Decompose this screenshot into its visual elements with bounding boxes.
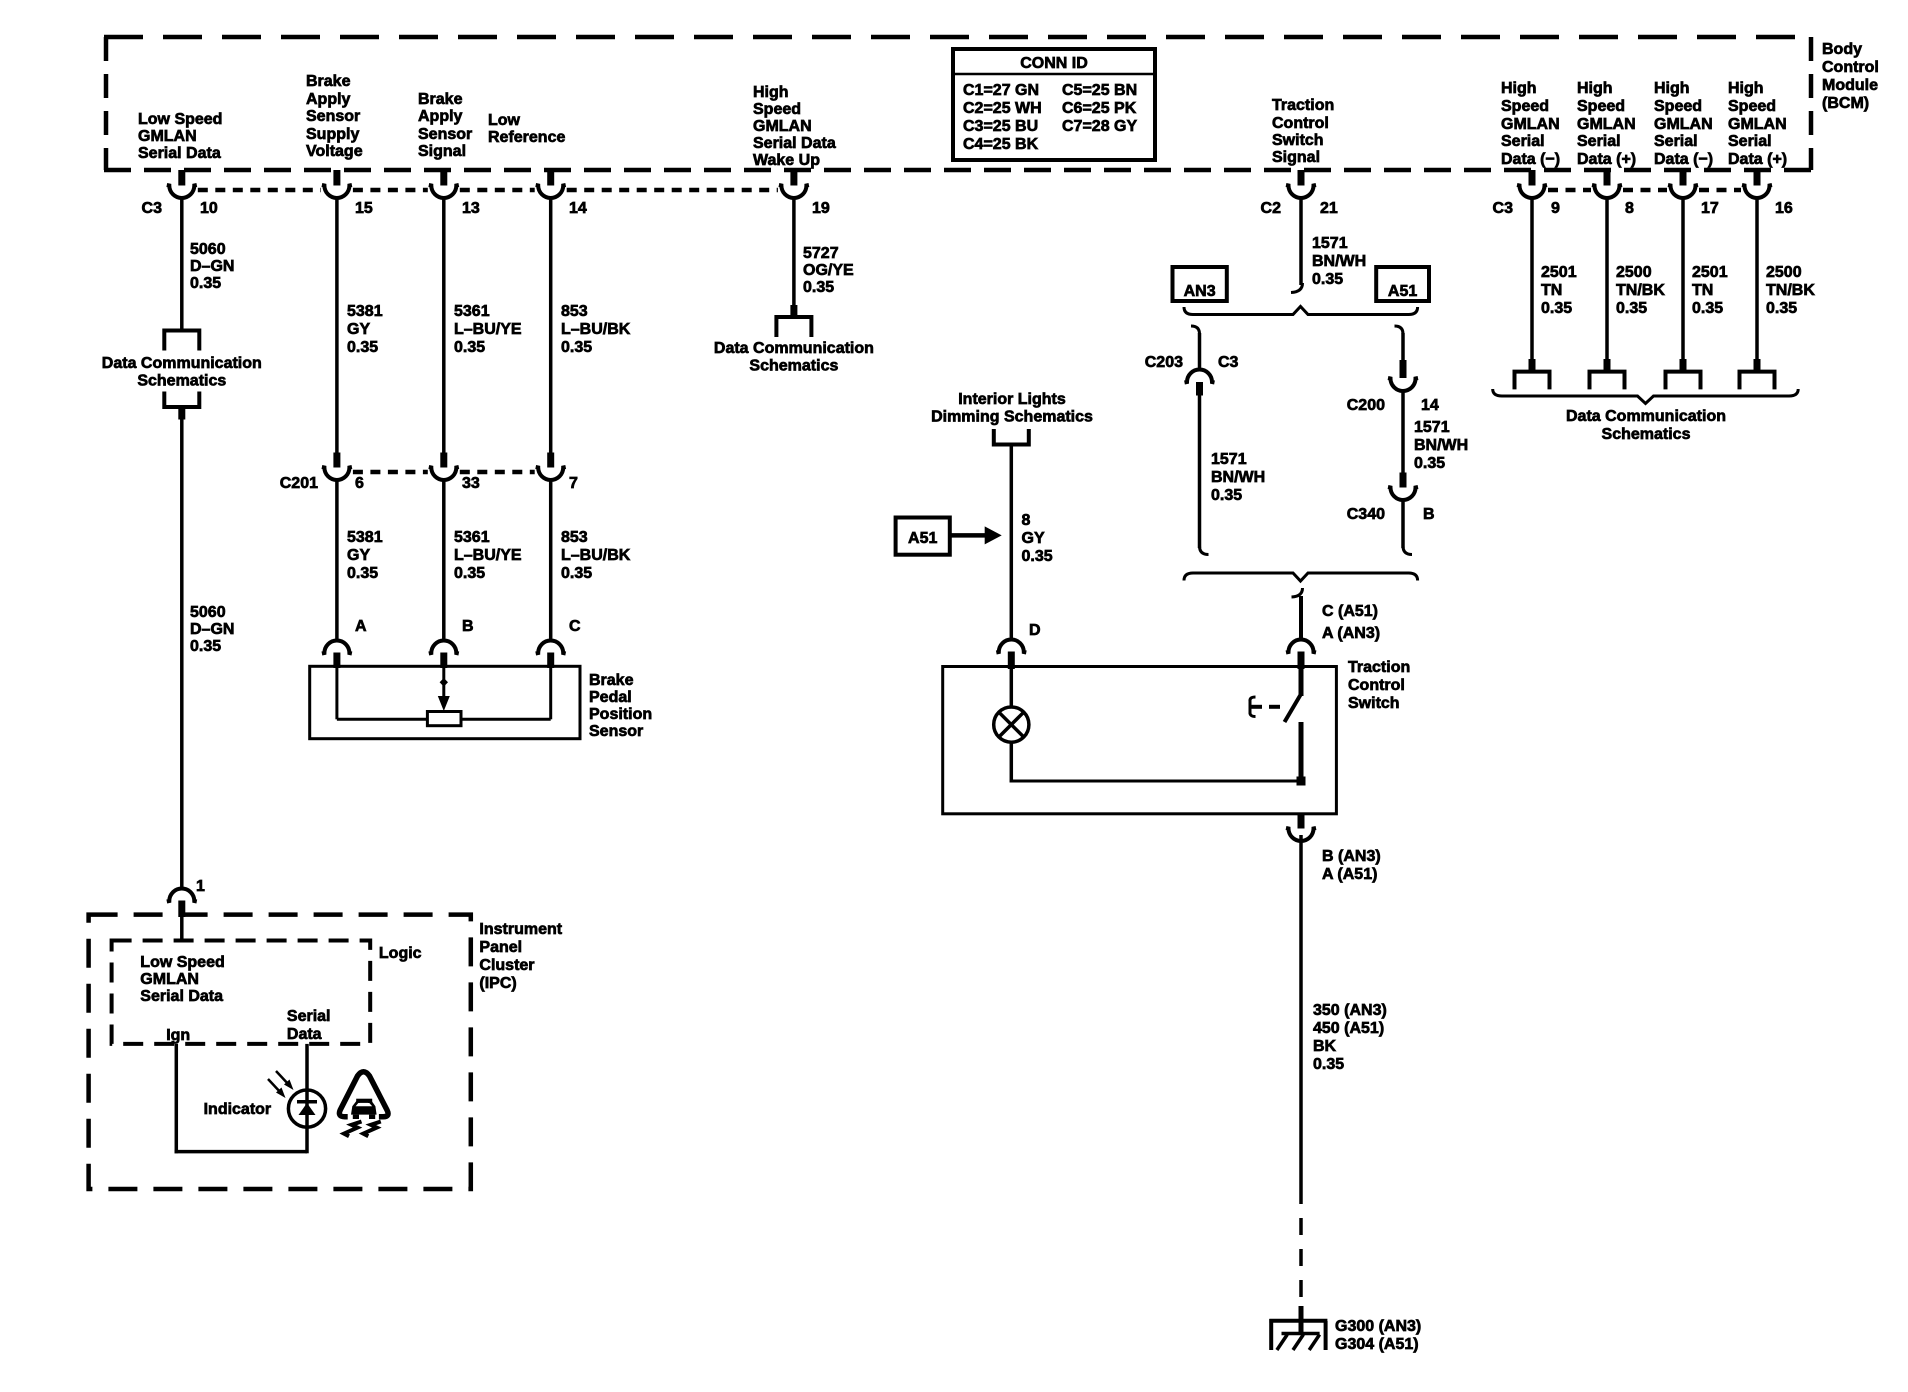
svg-text:0.35: 0.35 [561,339,592,356]
svg-text:Control: Control [1822,59,1879,76]
svg-text:TN/BK: TN/BK [1766,282,1815,299]
svg-text:L–BU/YE: L–BU/YE [454,321,522,338]
svg-text:Logic: Logic [379,945,422,962]
svg-text:B: B [1423,506,1435,523]
sensor pin C terminal [536,641,566,669]
svg-text:33: 33 [462,475,480,492]
svg-text:Signal: Signal [418,143,466,160]
wire 5361 upper label [454,303,522,356]
IPC wire into logic box [180,917,184,941]
svg-text:Speed: Speed [1577,98,1625,115]
svg-text:0.35: 0.35 [803,279,834,296]
wire 2500 TN/BK [1755,198,1759,360]
LED photon arrows [268,1071,294,1098]
svg-text:5361: 5361 [454,529,490,546]
svg-text:0.35: 0.35 [190,638,221,655]
sensor internal left leg [335,668,338,719]
label Data Communication Schematics [102,355,262,390]
IPC indicator circuit right leg upper [305,1044,309,1091]
potentiometer resistor element [427,712,461,726]
wire 1571 label right branch [1414,419,1468,472]
pin number 9 [1551,200,1560,217]
label Logic [379,945,422,962]
svg-text:Instrument: Instrument [479,921,562,938]
svg-text:A51: A51 [908,530,937,547]
svg-text:BN/WH: BN/WH [1211,469,1265,486]
svg-text:Schematics: Schematics [1602,426,1691,443]
svg-text:5361: 5361 [454,303,490,320]
pin number 21 [1320,200,1338,217]
label High Speed GMLAN Serial Data (-) (pin 17) [1654,80,1713,168]
sensor pin letter C [569,618,581,635]
svg-text:A (AN3): A (AN3) [1322,625,1380,642]
off-page ref Data Communication Schematics (bottom bracket) [164,392,199,408]
underbrace splice bottom [1184,573,1418,581]
wire 2501 TN tick [1529,359,1536,371]
svg-text:TN: TN [1692,282,1713,299]
pin number 10 [200,200,218,217]
label Low Reference (pin 14) [488,112,565,146]
C201 pin 33 terminal [429,453,459,480]
svg-text:853: 853 [561,303,588,320]
svg-text:L–BU/BK: L–BU/BK [561,321,631,338]
sensor pin letter A [355,618,367,635]
label Indicator [204,1101,272,1118]
sensor internal right leg [549,668,552,719]
right branch wire lower [1401,501,1405,549]
switch pin D terminal [996,640,1026,670]
svg-text:Traction: Traction [1272,97,1334,114]
Traction Control Switch box [943,667,1337,814]
label Instrument Panel Cluster (IPC) [479,921,562,992]
svg-text:C3: C3 [1493,200,1514,217]
svg-text:GMLAN: GMLAN [753,118,812,135]
svg-text:Data (+): Data (+) [1577,151,1636,168]
wire 5060 tick below bracket [178,407,185,420]
svg-text:A: A [355,618,367,635]
switch internal horizontal wire [1010,780,1301,783]
svg-text:13: 13 [462,200,480,217]
svg-text:Sensor: Sensor [418,126,472,143]
svg-text:Low: Low [488,112,521,129]
svg-text:0.35: 0.35 [454,339,485,356]
C201 pin number 7 [569,475,578,492]
svg-text:0.35: 0.35 [347,339,378,356]
wire 5060 label upper [190,241,234,292]
svg-text:GY: GY [347,547,370,564]
BCM pin 13 terminal [429,170,459,198]
svg-text:0.35: 0.35 [1541,300,1572,317]
wire 5361 upper segment [442,198,446,453]
svg-text:Data Communication: Data Communication [714,340,874,357]
BCM pin 8 terminal [1592,170,1622,198]
svg-text:Signal: Signal [1272,149,1320,166]
label C200 [1347,397,1385,414]
svg-text:Sensor: Sensor [306,108,360,125]
svg-text:Serial: Serial [1654,133,1698,150]
svg-text:Module: Module [1822,77,1878,94]
svg-text:0.35: 0.35 [1312,271,1343,288]
pin number 8 [1625,200,1634,217]
pin number 19 [812,200,830,217]
svg-text:Ign: Ign [166,1027,190,1044]
harness label box AN3 [1173,267,1227,301]
connector C203 tick [1196,382,1203,396]
svg-text:C5=25 BN: C5=25 BN [1062,82,1137,99]
BCM pin 16 terminal [1742,170,1772,198]
svg-text:0.35: 0.35 [1211,487,1242,504]
off-page ref bracket (interior lights) [994,429,1029,445]
svg-text:Brake: Brake [418,91,463,108]
svg-text:C201: C201 [280,475,318,492]
indicator LED symbol [288,1090,325,1127]
svg-text:A51: A51 [1388,283,1417,300]
svg-text:Data (−): Data (−) [1654,151,1713,168]
wire 5381 lower segment [335,481,339,640]
svg-text:Supply: Supply [306,126,359,143]
svg-text:19: 19 [812,200,830,217]
svg-text:C (A51): C (A51) [1322,603,1378,620]
switch pin B/A terminal [1286,814,1316,841]
label C203 [1145,354,1183,371]
switch feed wire [1299,596,1303,639]
Body Control Module (BCM) dashed box [104,37,1813,170]
svg-text:0.35: 0.35 [1766,300,1797,317]
svg-text:0.35: 0.35 [190,275,221,292]
svg-text:C203: C203 [1145,354,1183,371]
wire 5381 upper segment [335,198,339,453]
wire 5060 from pin 10 [180,198,184,331]
svg-text:Brake: Brake [589,672,634,689]
wire 5381 lower label [347,529,383,582]
svg-text:Cluster: Cluster [479,957,534,974]
off-page ref Data Communication Schematics (pin 19 bracket) [776,317,811,337]
BCM pin 9 terminal [1517,170,1547,198]
svg-text:Serial Data: Serial Data [140,988,223,1005]
svg-text:Speed: Speed [1728,98,1776,115]
svg-text:8: 8 [1625,200,1634,217]
wire 2501 TN tick [1680,359,1687,371]
right branch wire middle [1401,392,1405,474]
wire 2500 TN/BK label [1616,264,1665,317]
svg-text:GMLAN: GMLAN [1728,116,1787,133]
harness ref box A51 with arrow [896,518,1002,555]
label pin B at C340 [1423,506,1435,523]
svg-text:Brake: Brake [306,73,351,90]
label High Speed GMLAN Serial Data (+) (pin 16) [1728,80,1787,168]
svg-text:C3: C3 [142,200,163,217]
svg-text:AN3: AN3 [1184,283,1216,300]
sensor pin A terminal [322,641,352,669]
svg-text:Sensor: Sensor [589,723,643,740]
IPC indicator circuit left leg [175,1044,179,1153]
svg-text:1571: 1571 [1211,451,1247,468]
svg-text:High: High [753,84,789,101]
svg-text:14: 14 [569,200,587,217]
label Brake Apply Sensor Signal (pin 13) [418,91,472,160]
svg-text:1: 1 [196,878,205,895]
pin number 14 [569,200,587,217]
svg-text:OG/YE: OG/YE [803,262,854,279]
label Brake Apply Sensor Supply Voltage (pin 15) [306,73,363,160]
label Low Speed GMLAN Serial Data (pin 10) [138,111,222,162]
wire 1571 label (pin 21) [1312,235,1366,288]
svg-text:Voltage: Voltage [306,143,363,160]
svg-text:Dimming Schematics: Dimming Schematics [931,409,1093,426]
label Body Control Module (BCM) [1822,41,1879,112]
svg-text:0.35: 0.35 [1692,300,1723,317]
svg-text:Serial: Serial [1501,133,1545,150]
wire 5727 tick [790,305,797,317]
traction control indicator icon [339,1072,388,1136]
wire 8 GY [1010,445,1014,640]
svg-text:Speed: Speed [1654,98,1702,115]
svg-text:GMLAN: GMLAN [1501,116,1560,133]
switch upper contact stub [1299,669,1304,696]
svg-text:BN/WH: BN/WH [1312,253,1366,270]
svg-text:2500: 2500 [1616,264,1652,281]
svg-text:2500: 2500 [1766,264,1802,281]
svg-text:Interior Lights: Interior Lights [958,391,1066,408]
svg-text:Low Speed: Low Speed [140,954,224,971]
IPC indicator circuit right leg lower [305,1126,309,1153]
label Data Communication Schematics (pin 19) [714,340,874,375]
svg-text:High: High [1728,80,1764,97]
BCM pin 21 terminal [1286,170,1316,198]
wire 2500 TN/BK tick [1754,359,1761,371]
switch blade [1285,694,1302,722]
off-page terminal bracket at 1607 [1590,372,1625,390]
pin number 15 [355,200,373,217]
svg-text:15: 15 [355,200,373,217]
wire 2500 TN/BK [1605,198,1609,360]
underbrace Data Communication Schematics right [1493,389,1799,404]
right branch bottom hook [1403,546,1412,555]
svg-text:D–GN: D–GN [190,621,234,638]
svg-text:A (A51): A (A51) [1322,866,1377,883]
left branch bottom hook [1200,546,1209,555]
svg-text:450 (A51): 450 (A51) [1313,1020,1384,1037]
svg-text:Data (+): Data (+) [1728,151,1787,168]
svg-text:5381: 5381 [347,529,383,546]
overbrace splice top [1184,307,1418,315]
label G300 (AN3) / G304 (A51) [1335,1318,1421,1353]
wire 8 GY label [1022,512,1053,565]
svg-text:0.35: 0.35 [454,565,485,582]
svg-text:8: 8 [1022,512,1031,529]
svg-text:1571: 1571 [1414,419,1450,436]
svg-text:21: 21 [1320,200,1338,217]
wire 21 end hook [1291,283,1303,293]
svg-text:C4=25 BK: C4=25 BK [963,136,1039,153]
wire 5727 [792,198,796,306]
wire 5727 label [803,245,854,296]
Instrument Panel Cluster dashed box [89,915,471,1189]
left branch top hook [1191,326,1200,334]
svg-text:C3: C3 [1218,354,1239,371]
svg-text:7: 7 [569,475,578,492]
inline connector C200 (cup) [1388,378,1418,391]
svg-text:GY: GY [347,321,370,338]
wire 853 upper label [561,303,631,356]
svg-text:L–BU/BK: L–BU/BK [561,547,631,564]
wire 5060 to IPC [180,420,184,889]
switch junction dot [1297,777,1306,786]
svg-text:Body: Body [1822,41,1862,58]
wire 853 lower label [561,529,631,582]
svg-text:1571: 1571 [1312,235,1348,252]
svg-text:Traction: Traction [1348,659,1410,676]
switch feed hook [1292,588,1303,597]
svg-text:5381: 5381 [347,303,383,320]
wire 1571 from pin 21 [1299,198,1303,285]
svg-text:Pedal: Pedal [589,689,632,706]
svg-text:B: B [462,618,474,635]
svg-text:Serial Data: Serial Data [753,135,836,152]
svg-text:Data Communication: Data Communication [1566,408,1726,425]
svg-text:Data Communication: Data Communication [102,355,262,372]
svg-text:C: C [569,618,581,635]
switch pin C/A terminal [1286,640,1316,670]
C201 pin 7 terminal [536,453,566,480]
wire 5060 label lower [190,604,234,655]
svg-text:5060: 5060 [190,604,226,621]
wire 5361 lower label [454,529,522,582]
svg-text:Serial: Serial [287,1008,331,1025]
svg-text:9: 9 [1551,200,1560,217]
svg-text:Speed: Speed [753,101,801,118]
svg-text:BN/WH: BN/WH [1414,437,1468,454]
potentiometer wiper arrow [438,668,450,711]
inline connector C340 (cup) [1388,487,1418,500]
svg-text:TN: TN [1541,282,1562,299]
svg-text:Speed: Speed [1501,98,1549,115]
label Traction Control Switch Signal (pin 21) [1272,97,1334,166]
label C340 [1347,506,1385,523]
label High Speed GMLAN Serial Data Wake Up (pin 19) [753,84,836,169]
IPC logic dashed box [112,941,371,1044]
left branch wire upper [1198,333,1202,370]
off-page terminal bracket at 1757 [1740,372,1775,390]
svg-text:Schematics: Schematics [137,373,226,390]
sensor pin letter B [462,618,474,635]
svg-text:Low Speed: Low Speed [138,111,222,128]
right branch wire upper [1401,333,1405,361]
indicator lamp wire lower [1010,742,1014,782]
label Serial Data (IPC) [287,1008,331,1043]
svg-text:G304 (A51): G304 (A51) [1335,1336,1419,1353]
svg-text:High: High [1501,80,1537,97]
svg-text:Panel: Panel [479,939,522,956]
pin number 16 [1775,200,1793,217]
off-page terminal bracket at 1532 [1515,372,1550,390]
svg-text:D: D [1029,622,1041,639]
svg-text:Data (−): Data (−) [1501,151,1560,168]
label pin 14 at C200 [1421,397,1439,414]
wire 853 lower segment [549,481,553,640]
connector label C2 [1261,200,1282,217]
indicator lamp (circle-X) [994,707,1029,742]
wire 350/450 BK solid [1299,835,1303,1187]
svg-text:B (AN3): B (AN3) [1322,848,1381,865]
svg-text:Apply: Apply [418,108,463,125]
svg-text:High: High [1577,80,1613,97]
BCM pin 19 terminal [779,170,809,198]
svg-text:GMLAN: GMLAN [140,971,199,988]
svg-text:G300 (AN3): G300 (AN3) [1335,1318,1421,1335]
ground G300/G304 symbol [1269,1319,1327,1350]
wire 853 upper segment [549,198,553,453]
CONN ID table [953,49,1155,160]
svg-text:Serial: Serial [1577,133,1621,150]
svg-text:TN/BK: TN/BK [1616,282,1665,299]
Brake Pedal Position Sensor box [310,666,580,738]
wire 5361 lower segment [442,481,446,640]
sensor pin B terminal [429,641,459,669]
svg-text:Data: Data [287,1026,322,1043]
svg-text:5060: 5060 [190,241,226,258]
connector label C201 [280,475,318,492]
svg-text:6: 6 [355,475,364,492]
svg-text:2501: 2501 [1541,264,1577,281]
right branch top hook [1395,326,1404,334]
svg-text:0.35: 0.35 [1414,455,1445,472]
svg-text:C7=28 GY: C7=28 GY [1062,118,1137,135]
svg-text:17: 17 [1701,200,1719,217]
svg-text:14: 14 [1421,397,1439,414]
ground stub [1299,1306,1304,1334]
svg-text:Schematics: Schematics [749,358,838,375]
BCM pin 10 terminal [167,170,197,198]
svg-text:Serial: Serial [1728,133,1772,150]
indicator lamp wire upper [1010,668,1014,707]
svg-text:(BCM): (BCM) [1822,95,1869,112]
svg-text:GMLAN: GMLAN [138,128,197,145]
svg-text:BK: BK [1313,1038,1337,1055]
switch momentary detent symbol [1250,697,1280,717]
sensor internal track [337,718,551,721]
C201 pin number 6 [355,475,364,492]
connector label C3 right [1493,200,1514,217]
svg-text:Wake Up: Wake Up [753,152,820,169]
label Data Communication Schematics right [1566,408,1726,443]
svg-text:16: 16 [1775,200,1793,217]
svg-text:C3=25 BU: C3=25 BU [963,118,1038,135]
wire 2501 TN [1681,198,1685,360]
BCM pin 14 terminal [536,170,566,198]
svg-text:0.35: 0.35 [1313,1056,1344,1073]
svg-text:0.35: 0.35 [1616,300,1647,317]
svg-text:853: 853 [561,529,588,546]
svg-text:Position: Position [589,706,652,723]
connector C3 dotted line (pins 9-16) [1548,188,1741,193]
svg-text:Control: Control [1272,115,1329,132]
svg-text:2501: 2501 [1692,264,1728,281]
wire 1571 label left branch [1211,451,1265,504]
pin number 17 [1701,200,1719,217]
svg-text:GMLAN: GMLAN [1654,116,1713,133]
IPC indicator circuit bottom wire [175,1150,308,1154]
connector C3 dotted line (pins 10-19) [198,188,778,193]
svg-text:0.35: 0.35 [347,565,378,582]
off-page terminal bracket at 1683 [1666,372,1701,390]
svg-text:(IPC): (IPC) [479,975,516,992]
svg-text:Switch: Switch [1348,695,1400,712]
C201 pin 6 terminal [322,453,352,480]
wire 350/450 BK label [1313,1002,1387,1073]
svg-text:0.35: 0.35 [561,565,592,582]
svg-text:Serial Data: Serial Data [138,145,221,162]
